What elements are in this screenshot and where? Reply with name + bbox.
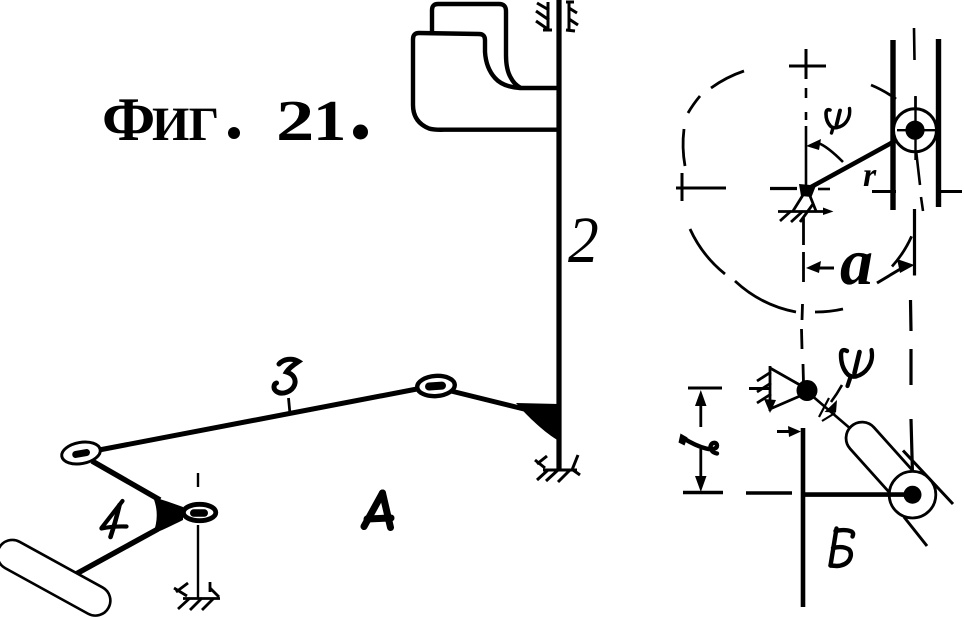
machine frame outline: upper cap profile <box>432 4 520 88</box>
link 4 lower arm <box>76 529 158 574</box>
roller circle lower <box>889 471 936 518</box>
horizontal line from dimension to pivot <box>749 387 770 390</box>
link 3 lower segment into gusset <box>451 391 528 410</box>
figure caption "Фиг. 21." <box>104 99 152 140</box>
vertical centerline above pivot <box>805 88 808 190</box>
roller capsule (follower) <box>839 416 927 509</box>
support link below joint 4 <box>197 473 199 599</box>
label r <box>864 170 877 186</box>
gusset joining link 3 to rod 2 <box>516 403 559 441</box>
label 3 <box>274 359 299 393</box>
label ψ lower <box>841 350 872 386</box>
guide rail segments lower <box>903 451 953 505</box>
label 2 <box>568 218 597 262</box>
angle arrow ψ lower <box>831 385 842 402</box>
label А <box>364 493 391 528</box>
center cross tick at left of circle <box>676 173 726 201</box>
dimension a arrows <box>818 267 834 270</box>
arrow into top of reference line <box>777 430 794 433</box>
fixed pivot dot <box>797 380 818 401</box>
fixed guide hatching left of rod 2 top <box>536 2 552 31</box>
pivot bracket with hatching <box>757 366 800 411</box>
rod 2 (vertical slide bar) <box>556 0 561 469</box>
ground hatching at bottom of rod 2 <box>535 455 580 482</box>
pedal (treadle plate) <box>0 535 116 618</box>
crank r <box>807 130 916 190</box>
guide rail left <box>890 40 895 210</box>
gusset at joint 4 <box>153 497 183 534</box>
ground line with hatching at crank pivot <box>778 204 826 222</box>
fixed guide hatching right of rod 2 top <box>566 2 578 31</box>
link 3 upper segment <box>99 389 417 450</box>
ground hatching below joint 4 <box>174 582 220 610</box>
pin joint E2 at left of link 3 <box>60 439 102 467</box>
link 4 upper arm <box>92 461 160 500</box>
thick reference line vertical <box>801 428 806 607</box>
guide rail right <box>936 39 941 207</box>
slot centerline dashes <box>914 28 916 112</box>
projection centerline dashes (crank axis) <box>802 218 804 383</box>
pin joint E3 at joint 4 <box>183 504 215 520</box>
horizontal centerline left of pivot <box>770 187 797 190</box>
label l (script ell) <box>679 434 688 446</box>
horizontal centerline dash right of pivot <box>818 188 830 191</box>
horizontal centerline dash left of reference line <box>746 491 792 494</box>
angle arrow ψ upper <box>818 143 843 162</box>
label Б <box>831 529 854 567</box>
label 4 <box>102 501 127 537</box>
tick from label 3 to link <box>289 398 291 414</box>
fixed pivot of crank <box>799 184 816 197</box>
roller joint of crank <box>894 109 937 152</box>
dashed crank circle <box>683 71 912 312</box>
label a <box>841 253 872 285</box>
thick reference line horizontal to roller <box>803 492 912 497</box>
link from pivot to roller <box>810 394 866 442</box>
dimension l <box>688 387 722 390</box>
pin joint E1 at top of link 3 <box>417 375 456 398</box>
horizontal centerline dashes crossing rails <box>872 190 962 193</box>
center cross tick at top of circle <box>789 49 826 79</box>
machine frame outline: body profile <box>413 33 558 130</box>
label ψ upper <box>826 109 850 134</box>
projection centerline dashes (slot axis) <box>911 209 915 474</box>
